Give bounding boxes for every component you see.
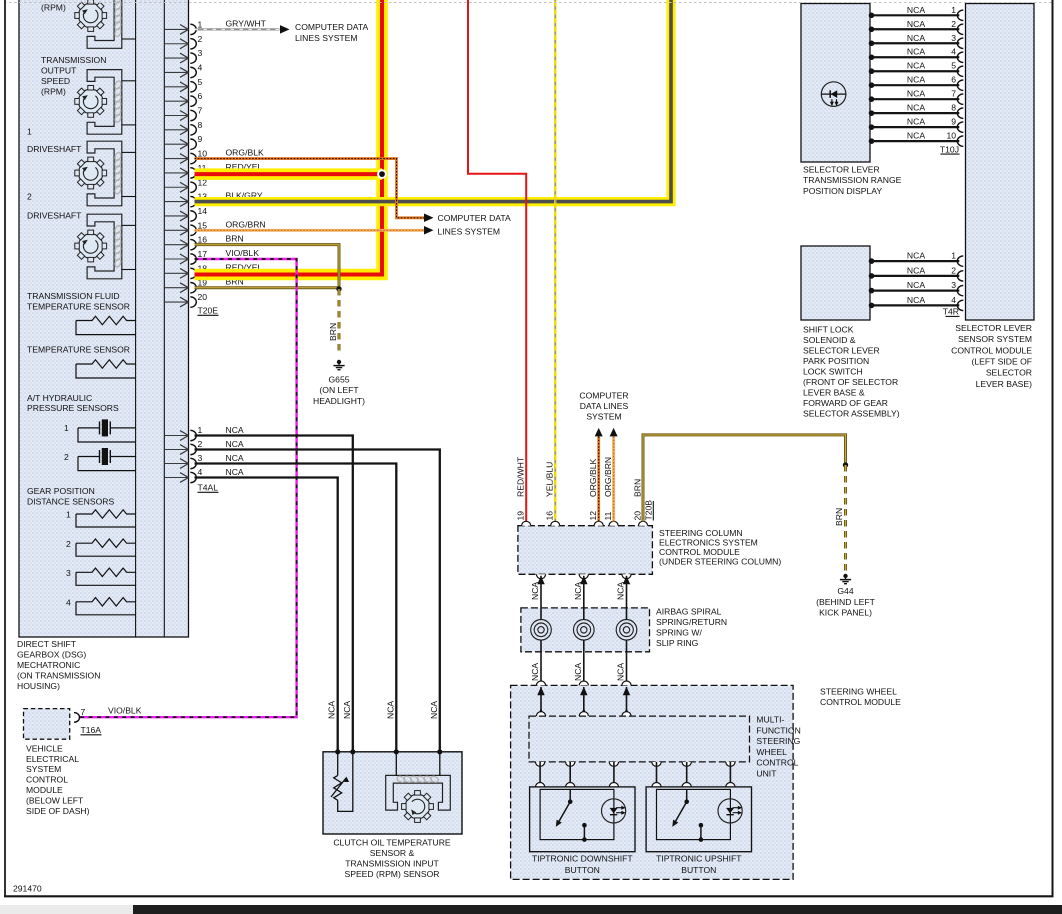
svg-text:NCA: NCA	[226, 425, 244, 435]
svg-text:G44: G44	[837, 586, 853, 596]
svg-text:BRN: BRN	[633, 479, 643, 497]
svg-text:NCA: NCA	[530, 582, 540, 600]
svg-text:4: 4	[951, 47, 956, 57]
svg-text:(LEFT SIDE OF: (LEFT SIDE OF	[972, 356, 1032, 366]
svg-text:NCA: NCA	[907, 103, 925, 113]
svg-text:10: 10	[946, 131, 956, 141]
svg-text:1: 1	[951, 5, 956, 15]
svg-text:TEMPERATURE SENSOR: TEMPERATURE SENSOR	[27, 302, 130, 312]
svg-text:SIDE OF DASH): SIDE OF DASH)	[26, 806, 90, 816]
svg-text:G655: G655	[328, 374, 349, 384]
svg-text:MULTI-: MULTI-	[756, 715, 784, 725]
svg-text:1: 1	[27, 127, 32, 137]
svg-text:NCA: NCA	[907, 295, 925, 305]
svg-text:NCA: NCA	[907, 280, 925, 290]
svg-text:NCA: NCA	[385, 701, 395, 719]
svg-text:CONTROL MODULE: CONTROL MODULE	[820, 697, 901, 707]
svg-text:2: 2	[198, 34, 203, 44]
svg-text:NCA: NCA	[907, 33, 925, 43]
svg-text:CONTROL MODULE: CONTROL MODULE	[951, 345, 1032, 355]
svg-text:2: 2	[64, 452, 69, 462]
svg-text:SYSTEM: SYSTEM	[26, 764, 61, 774]
svg-text:COMPUTER: COMPUTER	[579, 390, 628, 400]
svg-text:UNIT: UNIT	[756, 769, 777, 779]
svg-text:NCA: NCA	[907, 61, 925, 71]
svg-text:2: 2	[27, 192, 32, 202]
svg-text:STEERING WHEEL: STEERING WHEEL	[820, 687, 897, 697]
svg-text:SOLENOID &: SOLENOID &	[803, 335, 856, 345]
svg-text:(BELOW LEFT: (BELOW LEFT	[26, 795, 84, 805]
svg-text:4: 4	[66, 597, 71, 607]
svg-text:NCA: NCA	[616, 663, 626, 681]
svg-text:NCA: NCA	[907, 251, 925, 261]
svg-text:GEAR POSITION: GEAR POSITION	[27, 486, 95, 496]
svg-text:9: 9	[951, 117, 956, 127]
svg-text:6: 6	[198, 91, 203, 101]
svg-text:TIPTRONIC DOWNSHIFT: TIPTRONIC DOWNSHIFT	[532, 854, 633, 864]
svg-text:DRIVESHAFT: DRIVESHAFT	[27, 211, 82, 221]
svg-text:TRANSMISSION RANGE: TRANSMISSION RANGE	[803, 175, 902, 185]
svg-text:3: 3	[198, 453, 203, 463]
svg-text:ORG/BLK: ORG/BLK	[588, 459, 598, 497]
svg-text:NCA: NCA	[907, 19, 925, 29]
svg-text:T20E: T20E	[198, 306, 219, 316]
svg-text:LOCK SWITCH: LOCK SWITCH	[803, 367, 863, 377]
svg-text:SPEED: SPEED	[41, 76, 70, 86]
svg-text:SHIFT LOCK: SHIFT LOCK	[803, 325, 854, 335]
svg-text:COMPUTER DATA: COMPUTER DATA	[438, 213, 511, 223]
svg-text:OUTPUT: OUTPUT	[41, 66, 77, 76]
svg-text:SPEED (RPM) SENSOR: SPEED (RPM) SENSOR	[344, 869, 439, 879]
svg-text:MODULE: MODULE	[26, 785, 63, 795]
svg-text:(RPM): (RPM)	[41, 3, 66, 13]
svg-text:DISTANCE SENSORS: DISTANCE SENSORS	[27, 497, 114, 507]
svg-text:BRN: BRN	[226, 234, 244, 244]
svg-text:1: 1	[66, 510, 71, 520]
svg-text:SELECTOR: SELECTOR	[986, 368, 1032, 378]
svg-text:3: 3	[951, 33, 956, 43]
svg-text:DIRECT SHIFT: DIRECT SHIFT	[17, 639, 77, 649]
svg-text:2: 2	[951, 19, 956, 29]
svg-text:SENSOR SYSTEM: SENSOR SYSTEM	[958, 334, 1032, 344]
svg-text:MECHATRONIC: MECHATRONIC	[17, 660, 80, 670]
svg-text:LINES SYSTEM: LINES SYSTEM	[438, 227, 501, 237]
svg-text:STEERING: STEERING	[756, 736, 800, 746]
svg-text:SELECTOR LEVER: SELECTOR LEVER	[955, 323, 1032, 333]
svg-text:291470: 291470	[13, 884, 42, 894]
svg-text:12: 12	[588, 511, 598, 521]
svg-text:TEMPERATURE SENSOR: TEMPERATURE SENSOR	[27, 345, 130, 355]
svg-text:(UNDER STEERING COLUMN): (UNDER STEERING COLUMN)	[659, 557, 781, 567]
svg-text:T10J: T10J	[940, 144, 959, 154]
svg-text:ORG/BRN: ORG/BRN	[226, 219, 266, 229]
svg-text:VEHICLE: VEHICLE	[26, 743, 63, 753]
svg-text:A/T HYDRAULIC: A/T HYDRAULIC	[27, 393, 92, 403]
svg-text:NCA: NCA	[907, 89, 925, 99]
svg-text:NCA: NCA	[616, 582, 626, 600]
svg-text:8: 8	[951, 103, 956, 113]
svg-text:WHEEL: WHEEL	[756, 747, 787, 757]
svg-text:(RPM): (RPM)	[41, 86, 66, 96]
svg-text:VIO/BLK: VIO/BLK	[108, 706, 142, 716]
svg-text:NCA: NCA	[327, 701, 337, 719]
svg-text:BUTTON: BUTTON	[681, 865, 716, 875]
svg-text:ORG/BLK: ORG/BLK	[226, 148, 264, 158]
svg-text:SELECTOR LEVER: SELECTOR LEVER	[803, 346, 880, 356]
svg-text:(ON LEFT: (ON LEFT	[319, 385, 359, 395]
svg-text:CONTROL: CONTROL	[756, 758, 798, 768]
svg-text:NCA: NCA	[907, 47, 925, 57]
svg-text:KICK PANEL): KICK PANEL)	[819, 608, 872, 618]
svg-text:20: 20	[198, 292, 208, 302]
svg-text:PRESSURE SENSORS: PRESSURE SENSORS	[27, 403, 119, 413]
svg-text:COMPUTER DATA: COMPUTER DATA	[295, 22, 368, 32]
svg-text:1: 1	[198, 425, 203, 435]
svg-text:SENSOR &: SENSOR &	[370, 848, 415, 858]
svg-text:1: 1	[64, 423, 69, 433]
svg-text:4: 4	[198, 467, 203, 477]
svg-text:BUTTON: BUTTON	[565, 865, 600, 875]
svg-text:(FRONT OF SELECTOR: (FRONT OF SELECTOR	[803, 377, 898, 387]
svg-text:11: 11	[603, 511, 613, 520]
svg-text:1: 1	[198, 19, 203, 29]
svg-text:ORG/BRN: ORG/BRN	[603, 457, 613, 497]
svg-text:NCA: NCA	[530, 663, 540, 681]
svg-text:VIO/BLK: VIO/BLK	[226, 248, 260, 258]
svg-text:3: 3	[66, 568, 71, 578]
svg-text:(ON TRANSMISSION: (ON TRANSMISSION	[17, 671, 100, 681]
svg-text:RED/WHT: RED/WHT	[516, 456, 526, 497]
svg-text:2: 2	[66, 539, 71, 549]
svg-text:2: 2	[198, 439, 203, 449]
svg-text:NCA: NCA	[226, 453, 244, 463]
svg-text:19: 19	[516, 511, 526, 521]
svg-text:TRANSMISSION INPUT: TRANSMISSION INPUT	[345, 859, 439, 869]
svg-text:GEARBOX (DSG): GEARBOX (DSG)	[17, 650, 86, 660]
svg-text:T16A: T16A	[81, 725, 102, 735]
svg-text:SELECTOR ASSEMBLY): SELECTOR ASSEMBLY)	[803, 408, 900, 418]
svg-text:DRIVESHAFT: DRIVESHAFT	[27, 144, 82, 154]
svg-text:DATA LINES: DATA LINES	[580, 401, 629, 411]
svg-text:CONTROL MODULE: CONTROL MODULE	[659, 547, 740, 557]
svg-text:2: 2	[951, 265, 956, 275]
svg-text:T4R: T4R	[943, 307, 959, 317]
svg-text:BRN: BRN	[328, 323, 338, 341]
svg-text:TRANSMISSION FLUID: TRANSMISSION FLUID	[27, 291, 120, 301]
svg-text:NCA: NCA	[907, 5, 925, 15]
svg-text:5: 5	[951, 61, 956, 71]
svg-text:NCA: NCA	[907, 75, 925, 85]
svg-text:3: 3	[198, 48, 203, 58]
svg-text:10: 10	[198, 149, 208, 159]
svg-text:15: 15	[198, 220, 208, 230]
svg-text:PARK POSITION: PARK POSITION	[803, 356, 869, 366]
svg-text:HEADLIGHT): HEADLIGHT)	[313, 396, 365, 406]
svg-text:14: 14	[198, 206, 208, 216]
svg-text:HOUSING): HOUSING)	[17, 681, 60, 691]
svg-text:LEVER BASE): LEVER BASE)	[976, 379, 1032, 389]
svg-text:1: 1	[951, 251, 956, 261]
svg-text:8: 8	[198, 120, 203, 130]
svg-text:SPRING/RETURN: SPRING/RETURN	[656, 617, 727, 627]
svg-text:ELECTRONICS SYSTEM: ELECTRONICS SYSTEM	[659, 538, 758, 548]
svg-text:FUNCTION: FUNCTION	[756, 725, 800, 735]
svg-text:TRANSMISSION: TRANSMISSION	[41, 55, 106, 65]
svg-text:7: 7	[198, 106, 203, 116]
svg-text:NCA: NCA	[342, 701, 352, 719]
svg-text:CLUTCH OIL TEMPERATURE: CLUTCH OIL TEMPERATURE	[333, 838, 451, 848]
svg-text:NCA: NCA	[226, 467, 244, 477]
svg-text:4: 4	[951, 295, 956, 305]
svg-text:GRY/WHT: GRY/WHT	[226, 18, 267, 28]
svg-text:SLIP RING: SLIP RING	[656, 638, 699, 648]
svg-text:NCA: NCA	[573, 582, 583, 600]
svg-text:16: 16	[545, 511, 555, 521]
svg-text:6: 6	[951, 75, 956, 85]
svg-text:NCA: NCA	[907, 131, 925, 141]
svg-text:TIPTRONIC UPSHIFT: TIPTRONIC UPSHIFT	[656, 854, 742, 864]
svg-text:STEERING COLUMN: STEERING COLUMN	[659, 528, 743, 538]
svg-text:9: 9	[198, 134, 203, 144]
svg-text:LEVER BASE &: LEVER BASE &	[803, 387, 865, 397]
svg-text:POSITION DISPLAY: POSITION DISPLAY	[803, 186, 882, 196]
svg-text:T4AL: T4AL	[198, 483, 219, 493]
svg-text:5: 5	[198, 77, 203, 87]
svg-text:3: 3	[951, 280, 956, 290]
svg-text:7: 7	[81, 707, 86, 717]
svg-text:20: 20	[633, 511, 643, 521]
svg-text:(BEHIND LEFT: (BEHIND LEFT	[816, 597, 875, 607]
svg-text:NCA: NCA	[907, 265, 925, 275]
svg-text:NCA: NCA	[429, 701, 439, 719]
svg-text:LINES SYSTEM: LINES SYSTEM	[295, 33, 358, 43]
svg-text:AIRBAG SPIRAL: AIRBAG SPIRAL	[656, 606, 722, 616]
svg-text:4: 4	[198, 62, 203, 72]
svg-text:7: 7	[951, 89, 956, 99]
svg-text:BRN: BRN	[834, 508, 844, 526]
svg-text:NCA: NCA	[226, 439, 244, 449]
svg-text:CONTROL: CONTROL	[26, 775, 68, 785]
svg-text:SYSTEM: SYSTEM	[586, 411, 621, 421]
svg-text:SELECTOR LEVER: SELECTOR LEVER	[803, 165, 880, 175]
svg-text:NCA: NCA	[573, 663, 583, 681]
svg-text:FORWARD OF GEAR: FORWARD OF GEAR	[803, 398, 888, 408]
svg-text:YEL/BLU: YEL/BLU	[545, 462, 555, 497]
svg-text:17: 17	[198, 249, 208, 259]
svg-text:ELECTRICAL: ELECTRICAL	[26, 754, 79, 764]
svg-text:T20B: T20B	[644, 500, 654, 521]
svg-text:NCA: NCA	[907, 117, 925, 127]
svg-text:SPRING W/: SPRING W/	[656, 628, 702, 638]
